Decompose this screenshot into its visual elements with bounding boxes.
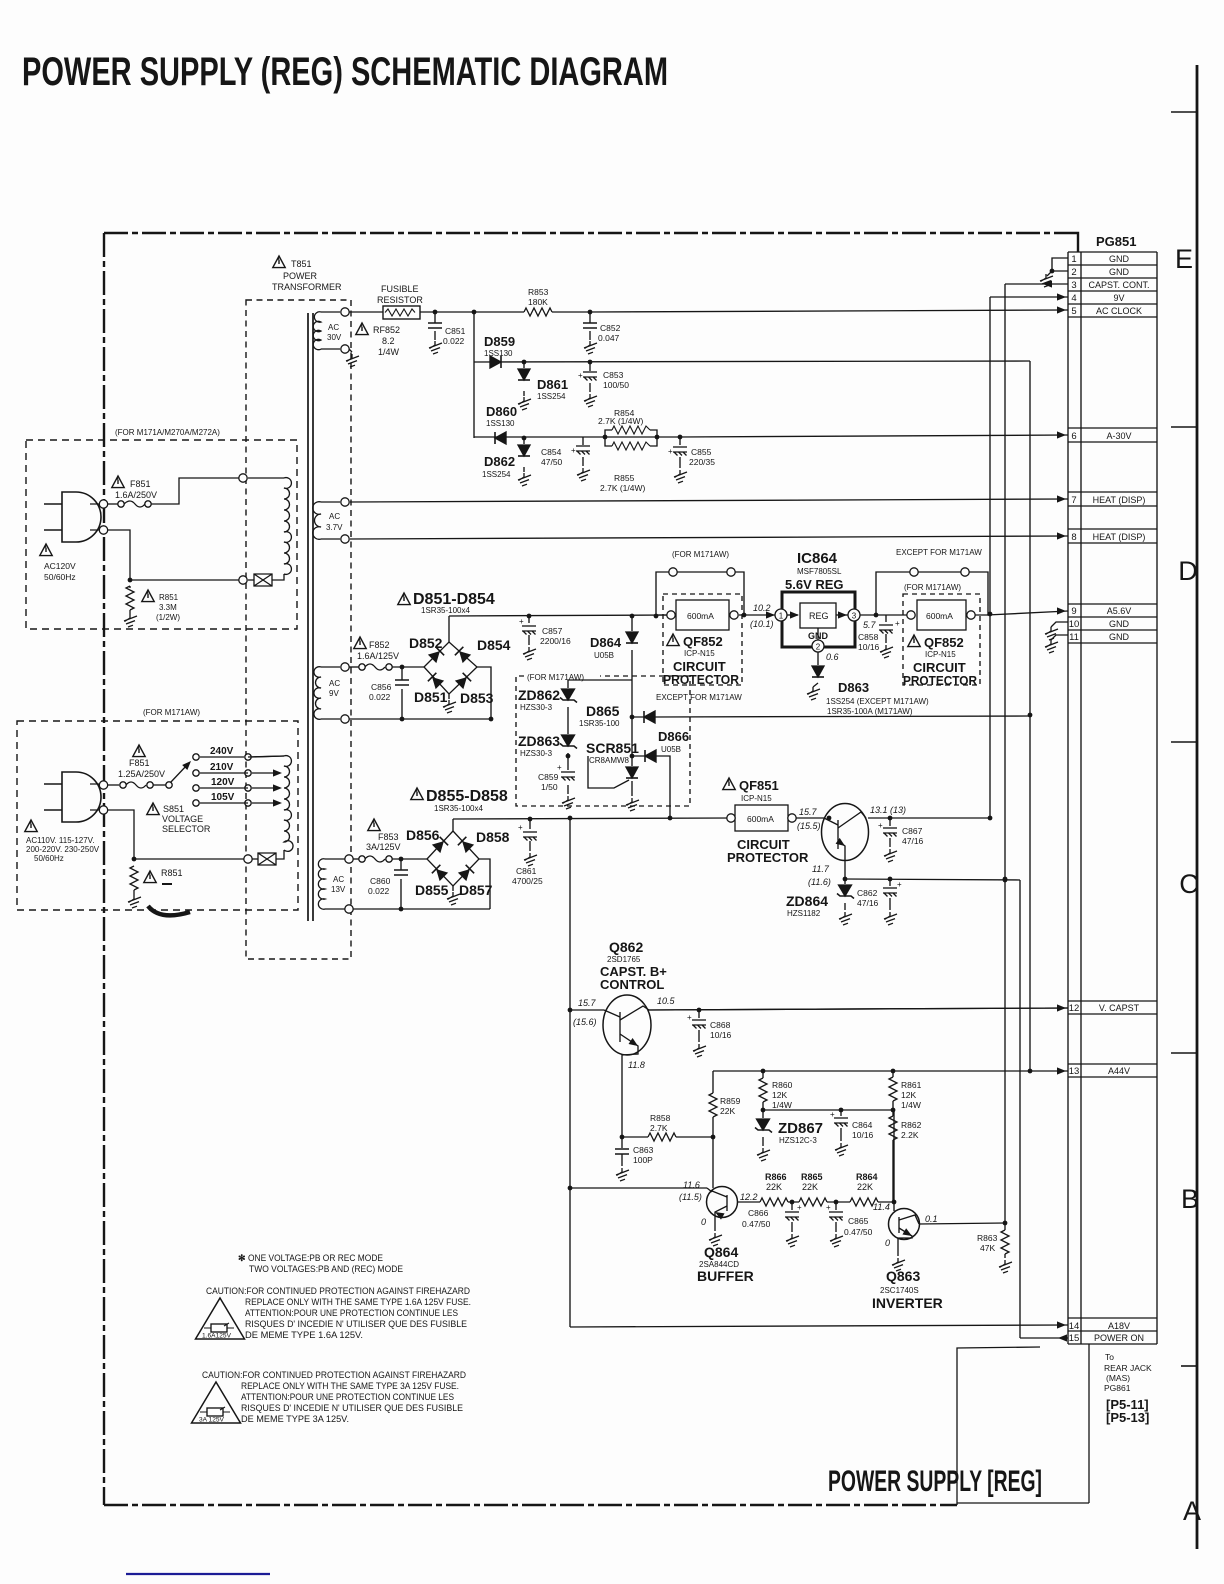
svg-text:ONE VOLTAGE:PB OR REC MODE: ONE VOLTAGE:PB OR REC MODE <box>248 1253 383 1263</box>
svg-text:+: + <box>571 446 576 455</box>
svg-text:13V: 13V <box>331 885 346 894</box>
svg-text:100/50: 100/50 <box>603 380 629 390</box>
svg-text:C868: C868 <box>710 1020 731 1030</box>
svg-text:1/50: 1/50 <box>541 782 558 792</box>
svg-text:D853: D853 <box>460 690 494 706</box>
svg-text:[P5-13]: [P5-13] <box>1106 1410 1149 1425</box>
svg-text:(15.5): (15.5) <box>797 821 821 831</box>
svg-text:50/60Hz: 50/60Hz <box>34 854 64 863</box>
svg-text:1: 1 <box>1071 254 1076 265</box>
svg-text:D858: D858 <box>476 829 510 845</box>
svg-text:HEAT (DISP): HEAT (DISP) <box>1093 495 1146 505</box>
svg-text:E: E <box>1175 244 1193 274</box>
svg-text:C852: C852 <box>600 323 621 333</box>
svg-text:12K: 12K <box>901 1090 916 1100</box>
svg-text:(11.5): (11.5) <box>679 1192 702 1202</box>
svg-text:10.5: 10.5 <box>657 996 676 1006</box>
svg-text:+: + <box>578 371 583 380</box>
svg-text:11.7: 11.7 <box>812 864 830 874</box>
svg-text:C863: C863 <box>633 1145 654 1155</box>
svg-text:12.2: 12.2 <box>740 1192 758 1202</box>
svg-text:(11.6): (11.6) <box>808 877 831 887</box>
svg-text:D854: D854 <box>477 637 511 653</box>
svg-text:2: 2 <box>1071 267 1076 278</box>
svg-text:1.6A/250V: 1.6A/250V <box>115 490 157 500</box>
svg-text:(MAS): (MAS) <box>1106 1373 1130 1383</box>
svg-text:200-220V. 230-250V: 200-220V. 230-250V <box>26 845 100 854</box>
svg-text:AC: AC <box>333 875 344 884</box>
svg-text:A18V: A18V <box>1108 1321 1130 1331</box>
svg-text:1SR35-100x4: 1SR35-100x4 <box>434 804 483 813</box>
svg-text:R865: R865 <box>801 1172 823 1182</box>
svg-text:105V: 105V <box>211 792 235 803</box>
svg-text:3: 3 <box>1071 280 1076 291</box>
svg-text:C862: C862 <box>857 888 878 898</box>
svg-text:+: + <box>895 619 900 628</box>
svg-text:+: + <box>878 821 883 830</box>
svg-text:ATTENTION:POUR UNE PROTECTION: ATTENTION:POUR UNE PROTECTION CONTINUE L… <box>241 1392 454 1402</box>
svg-text:D851: D851 <box>414 689 448 705</box>
svg-text:GND: GND <box>1109 267 1130 277</box>
svg-text:D862: D862 <box>484 454 515 469</box>
svg-text:POWER SUPPLY (REG) SCHEMATIC D: POWER SUPPLY (REG) SCHEMATIC DIAGRAM <box>22 50 668 94</box>
svg-text:2SC1740S: 2SC1740S <box>880 1286 919 1295</box>
svg-text:HZS12C-3: HZS12C-3 <box>779 1136 817 1145</box>
svg-text:D864: D864 <box>590 635 622 650</box>
svg-text:D860: D860 <box>486 404 517 419</box>
svg-text:A5.6V: A5.6V <box>1107 606 1132 616</box>
svg-text:C865: C865 <box>848 1216 869 1226</box>
svg-text:S851: S851 <box>163 804 184 814</box>
svg-text:50/60Hz: 50/60Hz <box>44 572 76 582</box>
svg-text:13: 13 <box>1069 1066 1080 1077</box>
svg-text:R859: R859 <box>720 1096 741 1106</box>
svg-text:A: A <box>1183 1496 1201 1526</box>
svg-text:AC110V. 115-127V.: AC110V. 115-127V. <box>26 836 95 845</box>
svg-text:13.1 (13): 13.1 (13) <box>870 805 906 815</box>
svg-text:10: 10 <box>1069 619 1080 630</box>
svg-text:12: 12 <box>1069 1003 1080 1014</box>
svg-text:10/16: 10/16 <box>852 1130 874 1140</box>
svg-text:1SS130: 1SS130 <box>484 349 513 358</box>
svg-text:ZD863: ZD863 <box>518 733 560 749</box>
svg-text:1: 1 <box>779 612 784 621</box>
svg-text:1SR35-100A (M171AW): 1SR35-100A (M171AW) <box>827 707 913 716</box>
svg-text:D855-D858: D855-D858 <box>426 788 508 805</box>
svg-text:T851: T851 <box>291 259 312 269</box>
svg-text:1SR35-100: 1SR35-100 <box>579 719 620 728</box>
svg-text:6: 6 <box>1071 431 1076 442</box>
svg-text:RISQUES D' INCEDIE N' UTILISER: RISQUES D' INCEDIE N' UTILISER QUE DES F… <box>241 1403 463 1413</box>
svg-text:Q862: Q862 <box>609 939 643 955</box>
svg-text:C: C <box>1179 869 1199 899</box>
svg-text:A-30V: A-30V <box>1106 431 1131 441</box>
svg-text:ICP-N15: ICP-N15 <box>684 649 715 658</box>
svg-text:B: B <box>1181 1184 1199 1214</box>
svg-text:C864: C864 <box>852 1120 873 1130</box>
svg-text:AC CLOCK: AC CLOCK <box>1096 306 1142 316</box>
svg-text:ATTENTION:POUR UNE PROTECTION: ATTENTION:POUR UNE PROTECTION CONTINUE L… <box>245 1308 458 1318</box>
svg-text:0.022: 0.022 <box>369 692 391 702</box>
svg-text:HZS1182: HZS1182 <box>787 909 821 918</box>
svg-text:0.022: 0.022 <box>443 336 465 346</box>
svg-text:R860: R860 <box>772 1080 793 1090</box>
svg-text:5: 5 <box>1071 306 1076 317</box>
svg-text:QF852: QF852 <box>924 635 964 650</box>
svg-text:(FOR M171AW): (FOR M171AW) <box>143 708 200 717</box>
svg-text:600mA: 600mA <box>687 611 714 621</box>
svg-text:+: + <box>668 447 673 456</box>
svg-text:4: 4 <box>1071 293 1076 304</box>
svg-text:R855: R855 <box>614 473 635 483</box>
svg-text:C856: C856 <box>371 682 392 692</box>
svg-text:+: + <box>897 880 902 889</box>
svg-text:R863: R863 <box>977 1233 998 1243</box>
svg-text:2SD1765: 2SD1765 <box>607 955 641 964</box>
svg-text:22K: 22K <box>766 1182 782 1192</box>
svg-text:D865: D865 <box>586 703 620 719</box>
svg-text:Q864: Q864 <box>704 1244 738 1260</box>
svg-text:PROTECTOR: PROTECTOR <box>663 672 740 687</box>
svg-text:CR8AMW8: CR8AMW8 <box>589 756 630 765</box>
svg-text:RESISTOR: RESISTOR <box>377 295 423 305</box>
svg-text:1.6A125V: 1.6A125V <box>202 1333 232 1340</box>
svg-text:2.7K (1/4W): 2.7K (1/4W) <box>598 416 644 426</box>
svg-text:DE MEME TYPE 1.6A 125V.: DE MEME TYPE 1.6A 125V. <box>245 1330 363 1340</box>
svg-text:A44V: A44V <box>1108 1066 1130 1076</box>
svg-text:1.6A/125V: 1.6A/125V <box>357 651 399 661</box>
svg-text:120V: 120V <box>211 777 235 788</box>
svg-text:9: 9 <box>1071 606 1076 617</box>
svg-text:D866: D866 <box>658 729 689 744</box>
svg-text:R864: R864 <box>856 1172 878 1182</box>
svg-text:To: To <box>1105 1352 1114 1362</box>
svg-text:BUFFER: BUFFER <box>697 1268 754 1284</box>
svg-text:D863: D863 <box>838 680 869 695</box>
svg-text:U05B: U05B <box>594 651 614 660</box>
svg-text:180K: 180K <box>528 297 548 307</box>
svg-text:0.47/50: 0.47/50 <box>742 1219 771 1229</box>
svg-text:D856: D856 <box>406 827 440 843</box>
svg-text:9V: 9V <box>329 689 339 698</box>
svg-text:ZD862: ZD862 <box>518 687 560 703</box>
svg-text:GND: GND <box>1109 619 1130 629</box>
svg-text:14: 14 <box>1069 1321 1080 1332</box>
svg-text:22K: 22K <box>802 1182 818 1192</box>
svg-text:PG861: PG861 <box>1104 1383 1131 1393</box>
svg-text:3: 3 <box>852 612 857 621</box>
svg-text:TWO VOLTAGES:PB AND (REC) MODE: TWO VOLTAGES:PB AND (REC) MODE <box>249 1264 403 1274</box>
svg-text:11.8: 11.8 <box>628 1060 645 1070</box>
svg-text:Q863: Q863 <box>886 1268 920 1284</box>
svg-text:R858: R858 <box>650 1113 671 1123</box>
svg-text:2.2K: 2.2K <box>901 1130 919 1140</box>
svg-text:11: 11 <box>1069 632 1079 643</box>
svg-text:F851: F851 <box>130 479 151 489</box>
svg-text:EXCEPT FOR M171AW: EXCEPT FOR M171AW <box>896 548 982 557</box>
svg-text:12K: 12K <box>772 1090 787 1100</box>
svg-text:C860: C860 <box>370 876 391 886</box>
svg-text:R851: R851 <box>159 593 179 602</box>
svg-text:+: + <box>687 1013 692 1022</box>
svg-text:(FOR M171A/M270A/M272A): (FOR M171A/M270A/M272A) <box>115 428 220 437</box>
svg-text:47K: 47K <box>980 1243 995 1253</box>
svg-text:GND: GND <box>1109 632 1130 642</box>
svg-text:✻: ✻ <box>238 1253 246 1263</box>
svg-text:PROTECTOR: PROTECTOR <box>903 673 978 688</box>
svg-text:EXCEPT FOR M171AW: EXCEPT FOR M171AW <box>656 693 742 702</box>
svg-text:15: 15 <box>1069 1333 1080 1344</box>
svg-text:(10.1): (10.1) <box>750 619 774 629</box>
svg-text:U05B: U05B <box>661 745 681 754</box>
svg-text:REAR JACK: REAR JACK <box>1104 1363 1152 1373</box>
svg-text:ICP-N15: ICP-N15 <box>925 650 956 659</box>
svg-text:22K: 22K <box>720 1106 735 1116</box>
svg-text:1/4W: 1/4W <box>378 347 400 357</box>
svg-text:10/16: 10/16 <box>858 642 880 652</box>
svg-text:+: + <box>830 1110 835 1119</box>
svg-text:11.4: 11.4 <box>873 1202 890 1212</box>
svg-text:PG851: PG851 <box>1096 234 1136 249</box>
svg-text:POWER: POWER <box>283 271 318 281</box>
svg-text:R851: R851 <box>161 868 183 878</box>
svg-text:1SR35-100x4: 1SR35-100x4 <box>421 606 470 615</box>
svg-text:SELECTOR: SELECTOR <box>162 824 211 834</box>
svg-text:C866: C866 <box>748 1208 769 1218</box>
svg-text:CAUTION:FOR CONTINUED PROTECTI: CAUTION:FOR CONTINUED PROTECTION AGAINST… <box>202 1370 466 1380</box>
svg-text:(15.6): (15.6) <box>573 1017 597 1027</box>
svg-text:C855: C855 <box>691 447 712 457</box>
svg-text:1SS254 (EXCEPT M171AW): 1SS254 (EXCEPT M171AW) <box>826 697 929 706</box>
svg-text:AC: AC <box>329 512 340 521</box>
svg-text:POWER ON: POWER ON <box>1094 1333 1144 1343</box>
svg-text:R862: R862 <box>901 1120 922 1130</box>
svg-text:R861: R861 <box>901 1080 922 1090</box>
svg-text:220/35: 220/35 <box>689 457 715 467</box>
svg-text:C861: C861 <box>516 866 537 876</box>
svg-text:QF852: QF852 <box>683 634 723 649</box>
svg-text:HEAT (DISP): HEAT (DISP) <box>1093 532 1146 542</box>
svg-text:D857: D857 <box>459 882 493 898</box>
svg-text:1SS254: 1SS254 <box>482 470 511 479</box>
svg-text:+: + <box>557 763 562 772</box>
svg-text:3A/125V: 3A/125V <box>366 842 401 852</box>
svg-text:SCR851: SCR851 <box>586 740 639 756</box>
svg-text:3.7V: 3.7V <box>326 523 343 532</box>
svg-text:ZD867: ZD867 <box>778 1120 823 1137</box>
svg-text:D859: D859 <box>484 334 515 349</box>
svg-text:PROTECTOR: PROTECTOR <box>727 850 809 865</box>
svg-text:F853: F853 <box>378 832 399 842</box>
svg-text:R853: R853 <box>528 287 549 297</box>
svg-text:2.7K (1/4W): 2.7K (1/4W) <box>600 483 646 493</box>
svg-text:0: 0 <box>885 1238 890 1248</box>
svg-text:CAUTION:FOR CONTINUED PROTECTI: CAUTION:FOR CONTINUED PROTECTION AGAINST… <box>206 1286 470 1296</box>
svg-text:22K: 22K <box>857 1182 873 1192</box>
svg-text:0.1: 0.1 <box>925 1214 938 1224</box>
svg-text:C851: C851 <box>445 326 466 336</box>
svg-text:D855: D855 <box>415 882 449 898</box>
svg-text:47/16: 47/16 <box>902 836 924 846</box>
svg-text:100P: 100P <box>633 1155 653 1165</box>
svg-text:FUSIBLE: FUSIBLE <box>381 284 419 294</box>
svg-text:+: + <box>518 823 523 832</box>
svg-text:47/16: 47/16 <box>857 898 879 908</box>
svg-text:HZS30-3: HZS30-3 <box>520 703 553 712</box>
svg-text:10.2: 10.2 <box>753 603 771 613</box>
svg-text:VOLTAGE: VOLTAGE <box>162 814 203 824</box>
svg-text:F852: F852 <box>369 640 390 650</box>
svg-text:4700/25: 4700/25 <box>512 876 543 886</box>
svg-text:2200/16: 2200/16 <box>540 636 571 646</box>
svg-text:C854: C854 <box>541 447 562 457</box>
svg-text:REG: REG <box>809 611 829 621</box>
svg-text:DE MEME TYPE 3A 125V.: DE MEME TYPE 3A 125V. <box>241 1414 349 1424</box>
svg-text:(FOR M171AW): (FOR M171AW) <box>904 583 961 592</box>
svg-text:240V: 240V <box>210 746 234 757</box>
svg-text:D: D <box>1178 556 1198 586</box>
svg-text:0.047: 0.047 <box>598 333 620 343</box>
svg-text:AC120V: AC120V <box>44 561 76 571</box>
svg-text:D861: D861 <box>537 377 568 392</box>
svg-text:GND: GND <box>1109 254 1130 264</box>
svg-text:3A 125V: 3A 125V <box>199 1417 225 1424</box>
svg-text:C867: C867 <box>902 826 923 836</box>
svg-text:IC864: IC864 <box>797 550 838 567</box>
svg-text:QF851: QF851 <box>739 778 779 793</box>
svg-text:CONTROL: CONTROL <box>600 977 664 992</box>
svg-text:AC: AC <box>328 323 339 332</box>
svg-text:TRANSFORMER: TRANSFORMER <box>272 282 342 292</box>
svg-text:R866: R866 <box>765 1172 787 1182</box>
svg-text:5.6V REG: 5.6V REG <box>785 577 844 592</box>
svg-text:11.6: 11.6 <box>683 1180 700 1190</box>
svg-text:600mA: 600mA <box>926 611 953 621</box>
svg-text:INVERTER: INVERTER <box>872 1295 943 1311</box>
svg-text:0.022: 0.022 <box>368 886 390 896</box>
svg-text:30V: 30V <box>327 333 342 342</box>
svg-text:210V: 210V <box>210 762 234 773</box>
svg-text:1/4W: 1/4W <box>772 1100 792 1110</box>
svg-text:2: 2 <box>816 643 821 652</box>
svg-text:47/50: 47/50 <box>541 457 563 467</box>
svg-text:8.2: 8.2 <box>382 336 395 346</box>
svg-text:RF852: RF852 <box>373 325 400 335</box>
svg-text:1SS130: 1SS130 <box>486 419 515 428</box>
svg-text:8: 8 <box>1071 532 1076 543</box>
svg-text:0.47/50: 0.47/50 <box>844 1227 873 1237</box>
svg-text:C859: C859 <box>538 772 559 782</box>
svg-text:AC: AC <box>329 679 340 688</box>
svg-text:V. CAPST: V. CAPST <box>1099 1003 1140 1013</box>
svg-text:3.3M: 3.3M <box>159 603 177 612</box>
svg-text:0: 0 <box>701 1217 706 1227</box>
svg-text:10/16: 10/16 <box>710 1030 732 1040</box>
svg-text:CAPST. CONT.: CAPST. CONT. <box>1088 280 1149 290</box>
svg-text:+: + <box>797 1203 802 1212</box>
svg-text:ICP-N15: ICP-N15 <box>741 794 772 803</box>
svg-text:+: + <box>519 617 524 626</box>
svg-text:C853: C853 <box>603 370 624 380</box>
svg-text:(FOR M171AW): (FOR M171AW) <box>672 550 729 559</box>
svg-text:15.7: 15.7 <box>799 807 818 817</box>
svg-text:C858: C858 <box>858 632 879 642</box>
svg-text:HZS30-3: HZS30-3 <box>520 749 553 758</box>
svg-text:2.7K: 2.7K <box>650 1123 668 1133</box>
svg-text:7: 7 <box>1071 495 1076 506</box>
svg-text:9V: 9V <box>1113 293 1124 303</box>
svg-text:+: + <box>826 1203 831 1212</box>
svg-text:MSF7805SL: MSF7805SL <box>797 567 842 576</box>
svg-text:1/4W: 1/4W <box>901 1100 921 1110</box>
svg-text:ZD864: ZD864 <box>786 893 828 909</box>
svg-text:REPLACE ONLY WITH THE SAME TYP: REPLACE ONLY WITH THE SAME TYPE 3A 125V … <box>241 1381 459 1391</box>
svg-text:600mA: 600mA <box>747 814 774 824</box>
svg-text:(1/2W): (1/2W) <box>156 613 180 622</box>
svg-text:RISQUES D' INCEDIE N' UTILISER: RISQUES D' INCEDIE N' UTILISER QUE DES F… <box>245 1319 467 1329</box>
svg-text:F851: F851 <box>129 758 150 768</box>
svg-text:0.6: 0.6 <box>826 652 839 662</box>
svg-text:REPLACE ONLY WITH THE SAME TYP: REPLACE ONLY WITH THE SAME TYPE 1.6A 125… <box>245 1297 471 1307</box>
svg-text:D852: D852 <box>409 635 443 651</box>
svg-text:1.25A/250V: 1.25A/250V <box>118 769 165 779</box>
svg-text:C857: C857 <box>542 626 563 636</box>
svg-text:1SS254: 1SS254 <box>537 392 566 401</box>
svg-text:POWER SUPPLY [REG]: POWER SUPPLY [REG] <box>828 1465 1042 1498</box>
svg-text:5.7: 5.7 <box>863 620 877 630</box>
svg-text:15.7: 15.7 <box>578 998 597 1008</box>
